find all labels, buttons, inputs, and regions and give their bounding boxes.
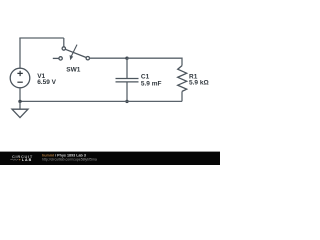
switch SW1 lever xyxy=(65,49,86,57)
V1 minus sign xyxy=(17,81,22,83)
svg-text:5.9 kΩ: 5.9 kΩ xyxy=(189,79,209,86)
V1 plus sign xyxy=(17,71,22,76)
resistor R1 zigzag xyxy=(178,66,187,92)
svg-text:LAB: LAB xyxy=(22,158,32,162)
switch SW1 xyxy=(53,45,90,61)
wire: top horizontal to switch xyxy=(19,37,63,39)
switch SW1 unused throw stub wire xyxy=(53,57,59,59)
logo diode mark xyxy=(19,159,21,161)
switch SW1 actuation arrow xyxy=(71,45,77,57)
svg-text:SW1: SW1 xyxy=(66,66,80,73)
wire: R1 bottom lead xyxy=(181,91,183,101)
V1 body circle xyxy=(10,68,30,88)
svg-text:http://circuitlab.com/cupe58ly: http://circuitlab.com/cupe58lybf5ma xyxy=(42,158,97,162)
wire: switch upper terminal drop xyxy=(63,38,65,47)
wire: switch to C1 node xyxy=(90,57,128,59)
logo resistor zigzag xyxy=(10,159,18,161)
node: top junction dot at C1 branch xyxy=(125,57,128,60)
banner background xyxy=(0,152,220,165)
node: ground junction dot xyxy=(18,100,21,103)
switch SW1 throw terminal circle (top) xyxy=(62,47,65,50)
wire: ground stem xyxy=(19,101,21,109)
capacitor C1 bottom plate xyxy=(116,81,139,83)
wire: C1 bottom lead xyxy=(126,82,128,101)
switch SW1 common terminal circle (right) xyxy=(86,57,89,60)
ground symbol xyxy=(12,109,28,117)
svg-text:5.9 mF: 5.9 mF xyxy=(141,80,162,87)
capacitor C1 top plate xyxy=(116,78,139,80)
wire: C1 node to R1 corner xyxy=(127,58,182,65)
wire: V1 bottom lead xyxy=(19,88,21,102)
voltage source V1 xyxy=(10,68,30,88)
switch SW1 unused throw circle xyxy=(59,57,62,60)
svg-text:6.59 V: 6.59 V xyxy=(37,79,56,86)
wire: V1 top lead up xyxy=(19,38,21,68)
node: bottom junction dot at C1 branch xyxy=(125,100,128,103)
wire: C1 top lead xyxy=(126,58,128,78)
wire: bottom rail xyxy=(20,100,182,102)
